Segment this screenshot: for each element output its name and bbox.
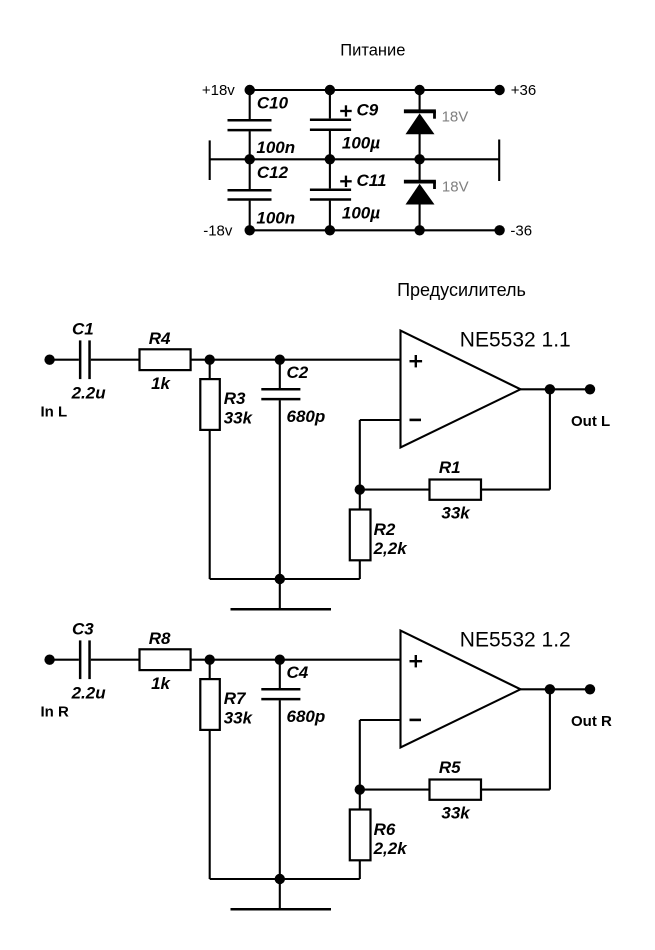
node +18v terminal [245,85,255,95]
svg-text:2,2k: 2,2k [373,539,409,558]
junction ground [275,874,285,884]
junction C9 top [325,85,335,95]
capacitor C10 [249,90,251,119]
svg-text:C10: C10 [257,93,289,112]
svg-text:1k: 1k [151,374,171,393]
wire inverting input [360,719,401,721]
zener diode D2 [419,159,421,181]
node -18v terminal [245,225,255,235]
junction D2 bottom [414,225,424,235]
svg-text:R1: R1 [439,458,461,477]
svg-text:C3: C3 [72,619,94,638]
wire R5 to output [481,789,550,791]
svg-text:2.2u: 2.2u [71,383,107,402]
svg-text:100n: 100n [256,138,295,157]
svg-text:33k: 33k [224,709,254,728]
capacitor C3 [79,640,82,679]
svg-text:+36: +36 [511,82,536,99]
junction R7 top [205,655,215,665]
capacitor C9 [329,90,331,118]
wire ground rail [210,578,360,580]
junction D1-D2 [414,154,424,164]
junction C11 bottom [325,225,335,235]
resistor R5 [430,780,482,800]
junction ground [275,574,285,584]
svg-text:R5: R5 [439,758,461,777]
terminal bar right of mid rail [498,140,500,182]
ground symbol [279,579,281,609]
svg-text:R4: R4 [149,329,171,348]
ground symbol [279,879,281,909]
wire +V top rail [250,89,500,91]
wire node to R5 [360,789,430,791]
node -36 terminal [494,225,504,235]
svg-text:NE5532 1.1: NE5532 1.1 [460,329,571,352]
svg-text:+18v: +18v [202,82,235,99]
svg-text:1k: 1k [151,674,171,693]
junction C2 top [275,355,285,365]
node +36 terminal [494,85,504,95]
svg-text:R2: R2 [374,520,396,539]
svg-text:Out L: Out L [571,413,610,430]
svg-text:C1: C1 [72,319,94,338]
svg-text:C4: C4 [287,663,309,682]
node Out L output terminal [585,384,595,394]
junction D1 top [414,85,424,95]
junction feedback node [355,484,365,494]
svg-text:18V: 18V [442,108,469,125]
resistor R3 [209,360,211,379]
junction R3 top [205,355,215,365]
svg-text:33k: 33k [224,409,254,428]
wire -V bottom rail [250,229,500,231]
svg-text:Предусилитель: Предусилитель [397,280,526,300]
svg-text:C9: C9 [357,101,379,120]
zener diode D1 [419,90,421,111]
op-amp U1 NE5532 1.1 [401,331,521,448]
svg-text:R8: R8 [149,629,171,648]
junction C9-C11 [325,154,335,164]
svg-text:-18v: -18v [203,223,233,240]
capacitor C12 [249,159,251,189]
svg-text:33k: 33k [441,503,471,522]
svg-text:C2: C2 [287,363,309,382]
wire op-amp output [521,688,591,690]
svg-text:R7: R7 [224,689,247,708]
junction feedback node [355,784,365,794]
resistor R8 [140,649,191,670]
svg-text:R6: R6 [374,820,396,839]
resistor R2 [359,490,361,510]
wire 0V mid rail [210,158,500,160]
wire R1 to output [481,489,550,491]
svg-text:C12: C12 [257,163,289,182]
svg-text:100µ: 100µ [342,133,380,152]
svg-text:Питание: Питание [340,41,405,59]
svg-text:NE5532 1.2: NE5532 1.2 [460,629,571,652]
wire inverting input [360,419,401,421]
junction output-feedback [545,384,555,394]
svg-text:100µ: 100µ [342,204,380,223]
polarity + of C9 [340,110,352,112]
junction C10-C12 [245,154,255,164]
op-amp U2 NE5532 1.2 [401,631,521,748]
svg-text:In L: In L [41,403,68,420]
svg-text:R3: R3 [224,389,246,408]
wire R8 to op-amp + input [191,659,401,661]
capacitor C1 [79,340,82,379]
svg-text:-36: -36 [510,223,532,240]
capacitor C2 [279,360,281,388]
junction C4 top [275,655,285,665]
node Out R output terminal [585,684,595,694]
polarity + of C11 [340,180,352,182]
terminal bar left of mid rail [209,140,211,180]
resistor R1 [430,480,482,500]
node In R input terminal [44,655,54,665]
svg-text:In R: In R [41,703,69,720]
svg-text:2.2u: 2.2u [71,683,107,702]
svg-text:18V: 18V [442,178,469,195]
svg-text:2,2k: 2,2k [373,839,409,858]
node In L input terminal [44,355,54,365]
svg-text:680p: 680p [287,707,326,726]
wire R4 to op-amp + input [191,359,401,361]
capacitor C11 [329,159,331,188]
svg-text:Out R: Out R [571,713,612,730]
svg-text:C11: C11 [357,171,387,190]
wire input to C3 [54,659,79,661]
svg-text:33k: 33k [441,803,471,822]
svg-text:680p: 680p [287,407,326,426]
wire node to R1 [360,489,430,491]
wire op-amp output [521,388,591,390]
resistor R4 [140,349,191,370]
resistor R7 [209,660,211,679]
wire input to C1 [54,359,79,361]
svg-text:100n: 100n [256,208,295,227]
capacitor C4 [279,660,281,688]
wire ground rail [210,878,360,880]
junction output-feedback [545,684,555,694]
resistor R6 [359,790,361,810]
